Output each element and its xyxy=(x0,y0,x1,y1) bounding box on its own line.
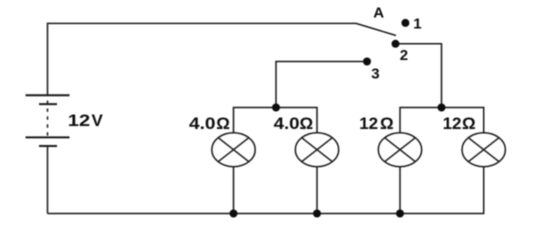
svg-text:Ω: Ω xyxy=(462,114,476,133)
svg-text:Ω: Ω xyxy=(300,114,314,133)
svg-text:12: 12 xyxy=(443,114,462,133)
svg-text:2: 2 xyxy=(400,47,408,64)
svg-text:V: V xyxy=(92,111,104,130)
svg-text:Ω: Ω xyxy=(380,114,394,133)
svg-text:12: 12 xyxy=(359,114,378,133)
svg-text:A: A xyxy=(373,4,384,21)
svg-text:4.0: 4.0 xyxy=(274,114,300,133)
svg-text:12: 12 xyxy=(68,111,90,130)
svg-text:1: 1 xyxy=(413,15,421,32)
svg-text:3: 3 xyxy=(371,65,379,82)
svg-text:Ω: Ω xyxy=(216,114,230,133)
svg-text:4.0: 4.0 xyxy=(189,114,216,133)
